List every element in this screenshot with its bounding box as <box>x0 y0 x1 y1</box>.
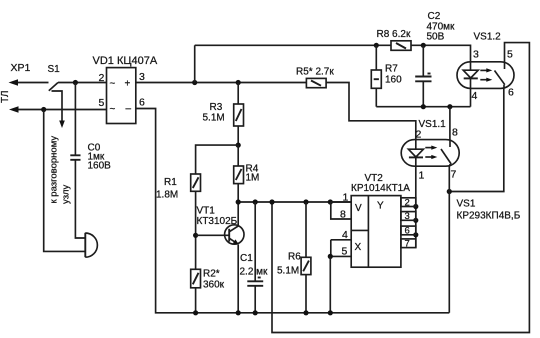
wire VS1.2 pin4 <box>470 89 472 107</box>
junction <box>236 143 241 148</box>
resistor R3 <box>234 83 244 146</box>
svg-text:7: 7 <box>451 169 457 181</box>
resistor R1 <box>191 174 201 269</box>
svg-text:6: 6 <box>139 97 145 109</box>
junction <box>328 310 333 315</box>
junction <box>193 310 198 315</box>
wire R7 C2 bottom bus <box>376 106 470 108</box>
svg-text:R5* 2.7к: R5* 2.7к <box>296 67 334 78</box>
svg-text:3: 3 <box>139 71 145 83</box>
svg-text:6: 6 <box>508 87 514 99</box>
svg-text:VS1: VS1 <box>457 199 476 210</box>
svg-text:ХР1: ХР1 <box>11 62 31 74</box>
junction <box>413 218 418 223</box>
label VS1 <box>457 199 521 222</box>
label k razgovornomu uzlu <box>49 136 72 204</box>
transistor VT1 <box>196 202 244 313</box>
svg-text:1: 1 <box>343 192 349 204</box>
svg-text:R1: R1 <box>164 177 177 188</box>
svg-text:3: 3 <box>473 49 479 61</box>
arrow to conversation node <box>52 91 65 128</box>
wire VS1.2 pin6 <box>449 88 504 191</box>
svg-text:VT1: VT1 <box>197 206 216 217</box>
svg-text:КР1014КТ1А: КР1014КТ1А <box>351 183 410 194</box>
label R1 <box>156 177 178 201</box>
junction <box>374 43 379 48</box>
connector XP1 arrow bottom <box>9 106 107 113</box>
junction <box>328 254 333 259</box>
svg-text:2: 2 <box>405 197 410 208</box>
svg-text:S1: S1 <box>48 64 61 75</box>
svg-text:3: 3 <box>405 211 410 222</box>
wire VT2 pin8 <box>331 202 351 219</box>
rectifier bridge VD1 <box>107 68 136 124</box>
label VT1 <box>197 206 238 228</box>
junction <box>236 310 241 315</box>
svg-text:узлу: узлу <box>61 184 72 204</box>
svg-text:5: 5 <box>342 246 348 258</box>
junction <box>193 233 198 238</box>
svg-text:+: + <box>125 79 131 90</box>
svg-text:4: 4 <box>472 90 478 102</box>
svg-text:VD1 КЦ407А: VD1 КЦ407А <box>93 55 158 67</box>
pin tab 7 VT2 <box>401 238 416 249</box>
capacitor C2 <box>415 45 431 106</box>
wire C0 to capsule <box>75 160 84 238</box>
svg-text:2: 2 <box>416 129 422 141</box>
junction <box>269 199 274 204</box>
wire VT2 pin1 <box>330 201 351 203</box>
junction <box>253 310 258 315</box>
pin tab 3 VT2 <box>401 211 416 222</box>
svg-text:R3: R3 <box>210 102 223 113</box>
wire top bus <box>195 44 391 46</box>
label R4 <box>246 164 260 184</box>
emitter bus wire <box>238 201 351 203</box>
svg-text:V: V <box>355 203 362 214</box>
svg-text:50В: 50В <box>427 32 445 43</box>
wire VT2 X to bus <box>329 256 331 312</box>
junction <box>413 204 418 209</box>
svg-text:360к: 360к <box>203 280 225 291</box>
junction <box>73 80 78 85</box>
label C2 <box>427 11 456 43</box>
resistor R7 <box>371 45 381 106</box>
junction <box>303 310 308 315</box>
wire R8 to VS1.2 pin3 <box>411 45 471 62</box>
resistor R2 <box>191 269 201 313</box>
junction <box>192 80 197 85</box>
pin tab 2 VT2 <box>401 197 416 208</box>
wire R5 to VS1.1 pin2 <box>326 83 416 141</box>
wire left branch to capsule <box>44 110 85 252</box>
svg-text:С2: С2 <box>428 11 441 22</box>
label C1 <box>240 253 269 278</box>
resistor R4 <box>234 145 244 202</box>
junction <box>447 189 452 194</box>
svg-text:КР293КП4В,Б: КР293КП4В,Б <box>457 211 521 222</box>
label C0 <box>88 143 112 172</box>
svg-text:R8 6.2к: R8 6.2к <box>377 29 411 40</box>
wire R1 top <box>196 145 239 174</box>
svg-text:2.2 мк: 2.2 мк <box>240 267 269 278</box>
resistor R8 <box>391 41 411 51</box>
wire VT2 pin4 <box>331 239 351 241</box>
junction <box>421 43 426 48</box>
junction <box>421 104 426 109</box>
label R3 <box>203 102 225 124</box>
svg-text:КТ3102Б: КТ3102Б <box>197 216 238 227</box>
wire VD1 pin3 bus <box>136 82 307 84</box>
svg-text:R7: R7 <box>385 64 398 75</box>
capacitor C0 <box>70 155 80 160</box>
svg-text:VS1.2: VS1.2 <box>474 32 502 43</box>
svg-text:6: 6 <box>405 226 410 237</box>
junction <box>413 232 418 237</box>
svg-text:1: 1 <box>419 170 425 182</box>
resistor R5 <box>306 78 326 87</box>
svg-text:8: 8 <box>452 127 458 139</box>
svg-text:~: ~ <box>110 104 116 115</box>
main bottom bus <box>136 109 450 313</box>
resistor R6 <box>301 202 311 313</box>
svg-text:R6: R6 <box>288 252 301 263</box>
label R7 <box>385 64 402 86</box>
junction <box>236 199 241 204</box>
junction <box>447 104 452 109</box>
wire VS1.1 pin7 down <box>448 166 450 313</box>
junction <box>253 199 258 204</box>
wire VS1.1 pin8 <box>449 107 451 140</box>
svg-text:1M: 1M <box>246 173 260 184</box>
svg-text:Y: Y <box>377 201 384 212</box>
wire riser to top bus <box>194 45 196 82</box>
svg-text:5.1M: 5.1M <box>277 266 299 277</box>
svg-text:8: 8 <box>340 209 346 221</box>
junction <box>41 107 46 112</box>
label R6 <box>277 252 301 277</box>
svg-text:2: 2 <box>99 72 105 84</box>
svg-text:5: 5 <box>507 49 513 61</box>
svg-text:~: ~ <box>110 79 116 90</box>
svg-text:1.8M: 1.8M <box>156 190 178 201</box>
optocoupler VS1.2 <box>457 62 514 89</box>
junction <box>328 199 333 204</box>
IC VT2 <box>351 196 401 268</box>
svg-text:4: 4 <box>342 229 348 241</box>
wire VT2 pin5 <box>330 240 351 257</box>
junction <box>236 80 241 85</box>
svg-text:5.1M: 5.1M <box>203 113 225 124</box>
svg-text:С1: С1 <box>240 253 253 264</box>
wire C0 branch <box>74 83 76 156</box>
pin tab 6 VT2 <box>401 226 416 237</box>
switch S1 <box>49 83 58 91</box>
label VT2 <box>351 173 410 194</box>
svg-text:–: – <box>126 104 132 115</box>
wire S1 to VD1 pin2 <box>58 82 107 84</box>
svg-text:160В: 160В <box>88 161 112 172</box>
junction <box>303 199 308 204</box>
connector XP1 arrow top <box>9 79 49 86</box>
svg-text:5: 5 <box>99 97 105 109</box>
label R2 <box>203 269 225 291</box>
svg-text:X: X <box>355 242 362 253</box>
svg-text:7: 7 <box>405 238 410 249</box>
capacitor C1 <box>247 202 263 313</box>
wire VS1.2 pin5 return path <box>272 43 529 333</box>
svg-text:ТЛ: ТЛ <box>0 91 11 103</box>
svg-text:VS1.1: VS1.1 <box>419 119 447 130</box>
optocoupler VS1.1 <box>401 140 459 167</box>
svg-text:к разговорному: к разговорному <box>49 136 60 204</box>
svg-text:R2*: R2* <box>203 269 220 280</box>
telephone capsule BF <box>85 233 97 257</box>
wire VS1.1 pin1 bus <box>415 166 417 247</box>
svg-text:160: 160 <box>385 75 402 86</box>
